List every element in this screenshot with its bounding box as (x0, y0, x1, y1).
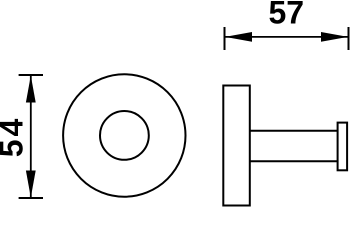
hook rod bottom line (250, 160, 338, 162)
top arrowhead (26, 76, 36, 103)
wall plate (side view) (223, 86, 250, 206)
right arrowhead (321, 32, 348, 42)
outer circle (front view of hook rosette) (63, 74, 185, 196)
hook rod top line (250, 130, 338, 132)
svg-text:57: 57 (269, 0, 305, 31)
top tick of vertical dimension (19, 74, 43, 76)
end cap (side view) (338, 123, 348, 171)
left arrowhead (225, 32, 252, 42)
left tick of horizontal dimension (224, 27, 226, 50)
horizontal dimension line 57 (225, 36, 349, 38)
vertical dimension line 54 (30, 75, 32, 198)
right tick of horizontal dimension (348, 27, 350, 50)
svg-text:54: 54 (0, 116, 30, 158)
bottom arrowhead (26, 171, 36, 198)
bottom tick of vertical dimension (19, 197, 43, 199)
inner circle (hub) (100, 111, 149, 160)
